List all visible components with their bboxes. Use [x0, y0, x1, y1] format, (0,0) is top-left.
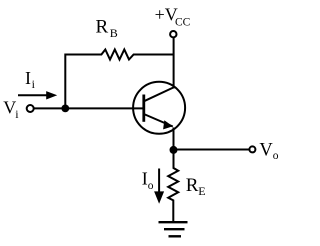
arrow Ii (input current): [18, 91, 57, 99]
svg-text:R: R: [186, 175, 199, 196]
terminal Vi (open circle): [27, 105, 34, 112]
terminal Vo (open circle): [249, 146, 255, 152]
svg-text:E: E: [198, 184, 205, 198]
terminal VCC (open circle): [170, 31, 176, 37]
label Io: [142, 168, 154, 192]
node junction dot (base node): [61, 105, 69, 113]
arrow Io (output current): [154, 169, 164, 204]
label +VCC: [155, 5, 191, 29]
svg-text:B: B: [110, 26, 118, 40]
wire VCC stem to collector: [173, 38, 175, 89]
transistor Q1 (NPN): [133, 82, 185, 134]
label RB: [96, 16, 118, 40]
wire emitter vertical: [173, 128, 175, 150]
wire to Vo: [174, 149, 250, 151]
svg-text:V: V: [3, 98, 16, 118]
label Ii: [25, 68, 36, 91]
wire base: [34, 107, 144, 109]
node emitter dot: [170, 146, 178, 154]
resistor RE: [168, 153, 178, 221]
svg-text:CC: CC: [175, 16, 191, 28]
svg-text:o: o: [273, 150, 279, 162]
svg-text:R: R: [96, 16, 109, 37]
svg-text:V: V: [259, 141, 273, 161]
label RE: [186, 175, 206, 198]
ground: [159, 222, 188, 236]
resistor RB: [65, 50, 173, 60]
svg-text:I: I: [25, 68, 31, 88]
wire left vertical branch: [64, 54, 66, 109]
svg-text:o: o: [148, 180, 154, 192]
label Vo: [259, 141, 278, 162]
label Vi: [3, 98, 19, 121]
